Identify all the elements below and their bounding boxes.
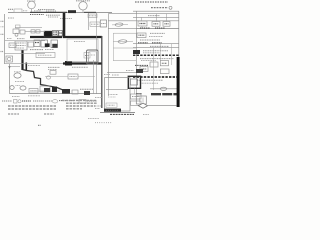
label rows y50 [143,50,168,52]
dark label row 2 [110,113,134,115]
dense ladder vertical x160 mid [159,44,161,61]
relay K3 box [59,31,62,37]
component box M [15,41,27,50]
bottom dark chip b2 [52,87,57,93]
big unit rectangle [67,39,98,62]
ladder left boundary wire [107,14,109,96]
ladder rail y13.6 [108,13,179,15]
arrowhead on left wire [8,66,10,69]
label 28V DC [8,8,14,10]
feeder staircase wire [23,70,64,94]
label below bus [46,14,60,16]
box a3 text [165,23,169,25]
box mid text [70,76,77,78]
label above y47.6 [150,45,169,47]
dark label on y43.6 a [138,42,148,44]
small box on wire [16,25,21,28]
wire under tall unit [100,111,135,113]
relay K5 filled [52,44,57,48]
box y66 c text [142,68,147,70]
component box up-c [100,20,106,27]
dark section bottom band [151,93,177,95]
ladder rail y47.6 [133,47,179,49]
tall unit text row 1 [108,94,118,96]
page number [38,124,41,126]
ladder rail y20.8 [108,20,179,22]
paragraph A line 1 [8,105,56,107]
twisted loop on y88.8 [160,87,166,90]
relay K2 box [53,31,59,37]
label rows y58.5 [140,58,174,60]
small box in big unit [84,53,90,59]
note paragraph B line 3 [66,105,95,107]
bottom label e [80,88,94,90]
dotted separator row [95,122,112,124]
wire horizontal y27.7 [15,27,42,29]
twisted wire loop 2 [118,39,127,43]
relay box row2 a [34,40,40,47]
breaker box row a2 [152,22,160,27]
breaker box row a1 [138,21,147,26]
connector balloon P1 [28,1,36,9]
relay row2 a text [35,42,39,44]
wire vertical x113.4 [112,33,114,61]
paragraph A line 2 [8,108,56,110]
label text mid-left 2 [48,68,57,70]
relay K3 text [60,32,62,34]
wire y91 bottom row [30,90,60,92]
wire vertical x153.3 [152,48,154,90]
label right of box y33 [150,32,165,34]
instrument oval Y2 [20,86,26,90]
dark label on rail y28.7 a [140,27,150,29]
heavy right border bar [177,57,180,107]
wire vertical x171.3 [170,44,172,65]
label below y72.6 [112,74,119,76]
upper wire vertical x88.5 [88,13,90,30]
label text above bus 2 [46,10,56,12]
fig label bottom right [143,114,149,116]
component box y69 d [160,69,169,74]
label box top-left [14,9,22,12]
breaker box row a3 [163,22,170,27]
label above P1 [27,0,36,2]
label above oval X [14,71,21,73]
dark label on rail y28.7 b [155,27,165,29]
small ellipse symbol mid-left [46,76,50,79]
note row text e [59,100,74,102]
rounded unit inner [88,52,96,62]
note row oval [52,100,58,103]
relay box row2 b [41,40,48,47]
box a2 text [154,23,159,25]
tick row under bus [30,14,44,16]
dark label on y43.6 b [152,42,162,44]
label right of stem P1 [34,10,41,12]
box y61 b text [162,62,167,64]
wire heavy box to side box [134,88,136,94]
white gaps in dark label band [106,109,119,111]
component box O [28,42,34,47]
label box up-b text [91,23,99,25]
dark terminal box left [133,50,140,54]
switch box b [20,30,25,34]
dense ladder vertical x142 lower [141,26,143,29]
title balloon [169,6,172,9]
box M text row3 [17,47,25,49]
label under rail y13.6 [148,15,160,17]
parallel thin wire [96,12,98,93]
feeder thick wire vertical [21,50,23,70]
valve symbol box [136,96,146,104]
component box N [9,43,16,48]
instrument oval X [14,73,21,78]
label left of stem P1 [23,10,28,12]
junction box on trunk 2 [65,61,72,66]
wire through loop 1 [112,23,128,26]
bottom box a text [31,90,37,92]
twisted wire loop 1 [115,23,123,27]
box M text row2 [17,45,26,47]
wire rail y88.8 [150,88,179,90]
label rows y80 [137,79,163,81]
relay K2 text b [53,33,57,35]
label below bus 3 [60,17,72,19]
bottom box b [40,86,50,92]
revised note text [88,118,99,120]
wire y76.6 left part [45,76,68,78]
label below y63.6 wire [28,64,40,66]
indicator circle in W [7,57,11,61]
text under bottom line b [28,95,40,97]
bracket label A [1,20,5,22]
left border wire upper [4,14,6,64]
circuit breaker CB1 [68,10,76,13]
rounded unit box [87,50,99,64]
wire rail y72.6 [107,72,136,74]
wire horizontal y40.7 [5,40,45,42]
big unit title text [74,40,85,42]
trunk drop wire [101,36,103,108]
component box y66 c [140,67,148,72]
left border wire lower [9,64,11,94]
dark label band bottom of tall unit [104,109,121,112]
label between ovals rows [15,81,24,83]
bus wire dark segment [30,11,67,13]
note row text b [22,100,31,102]
dense ladder vertical x166.3 [165,14,167,22]
wire from diamond to right border [148,105,177,107]
side box g1 text [132,96,140,98]
feeder thick wire parallel [25,63,27,71]
ladder rail y43.6 [133,43,179,45]
wire rail y60.6 [113,60,136,62]
paragraph A line 3 short [8,113,19,115]
dark label y65 left [135,64,148,66]
relay K1 filled box [44,31,52,37]
note paragraph B line 4 [66,108,82,110]
bottom dark chip b1 [44,88,50,92]
label text above bus [38,9,55,11]
wire vertical x93.7 [93,60,95,94]
note row circlet [18,100,21,103]
tall unit text row 2 [108,96,116,98]
switch box a [13,29,19,34]
ladder rail y11.2 [133,10,179,12]
label above wide box b [45,49,54,51]
dense ladder text y36.6 [149,36,163,38]
box y33 text [139,34,145,36]
component box mid [68,74,78,79]
wire horizontal y63.6 [5,63,64,65]
bottom boundary wire [10,93,102,95]
left col marks b [95,105,101,107]
paragraph A fig ref [44,113,54,115]
note row text d [45,100,52,102]
left col marks c [95,107,100,109]
contact circle [15,33,18,36]
label box up-a [88,14,97,18]
small box mid-left [50,71,56,75]
bottom dark box f [84,91,90,95]
ladder rail y17.4 [133,16,179,18]
bracket label B [1,33,5,35]
bottom box d [72,90,78,94]
relay K4 filled [45,43,50,47]
component box y62 a [150,62,158,67]
label box up-b [90,22,100,26]
relay K2 text [53,31,57,33]
wide relay box mid [36,53,55,58]
rounded unit text [90,54,96,56]
component box W [6,56,13,62]
instrument oval Y1 [10,86,14,90]
bus wire dark segment 2 [84,11,96,13]
wide relay box text [38,54,52,56]
relay box row2 c [51,40,58,48]
dense ladder text y60.4 [141,59,156,61]
tick in valve box 2 [142,98,144,103]
left edge tiny label [1,26,5,28]
bracket label C [1,51,4,53]
title text row 2 [151,7,168,9]
small box d [36,30,40,33]
wire stem P1 to bus [31,9,33,13]
ladder rail y28.7 [136,28,179,30]
wire rail y89.6 [106,89,128,91]
note row symbols: text a [2,100,12,102]
note row box f [79,100,86,104]
dense ladder vertical x156.3 [155,14,157,22]
note row text g [87,100,97,102]
component box y33 [137,33,146,38]
dense ladder vertical x141.5 [141,17,143,21]
check valve diamond [138,103,147,108]
heavy dashed feeder y55.2 [133,54,179,56]
wire stem P2 to bus [82,10,84,12]
label above wide box a [30,49,43,51]
component box y61 b [160,61,168,66]
wire rail y48 [113,47,136,49]
heavy dashed feeder y77 [133,76,179,78]
relay heavy-border box [128,76,140,88]
bottom box a [29,89,38,94]
relay cluster dark band [30,36,62,38]
note paragraph B line 2 [66,102,97,104]
small box text [108,104,116,106]
small box c [31,30,35,33]
bottom dark box c [62,89,70,94]
wire horizontal y53.7 [5,53,46,55]
label under left border top [8,17,14,19]
label between ovals [16,85,21,87]
label above P2 [76,0,90,2]
text in small box of big unit [85,54,89,56]
side box g2 [131,101,142,105]
note paragraph B line 1 [62,99,97,101]
wire y76.6 right part [78,76,95,78]
label text below trunk2 [72,66,88,68]
trunk harness vertical [63,13,66,37]
label above y40.7 b [17,38,25,40]
small box in tall unit [106,103,117,107]
note row text c [33,100,44,102]
dense ladder right boundary [178,11,180,57]
wire rail y33.2 [113,32,136,34]
label row y40 [140,39,160,41]
bus wire 28V DC [8,11,112,13]
left col marks a [95,96,102,98]
text under bottom line a [12,96,20,98]
tall unit box [105,78,130,112]
label above y40.7 [7,38,12,40]
dense ladder text y52.8 [143,52,160,54]
title text row 1 [135,1,168,3]
label above y72.6 [126,70,134,72]
label below bus 2 [48,16,58,18]
ladder rail y28.6 [108,28,179,30]
box up-c text [101,23,105,25]
box M text row1 [17,42,26,44]
relay heavy box inner [131,79,138,85]
note row small box [14,100,18,104]
box a1 text [140,23,146,25]
dense ladder left boundary [135,11,137,96]
text right of trunk drop [104,74,110,76]
dark cluster chip [136,69,143,73]
trunk harness horizontal 2 [63,62,102,64]
label text mid-left 1 [48,66,60,68]
wire through loop 2 [113,40,133,43]
label rows y83 [140,82,158,84]
box N text [10,44,15,46]
wire horizontal y66.6 [10,66,21,68]
side box g1 [131,94,142,99]
connector balloon P2 [79,2,87,10]
wire horizontal y31.7 [25,31,45,33]
trunk harness horizontal [63,36,102,38]
label box up-a text [89,15,96,17]
tick in valve box 1 [139,98,141,103]
small dark mark above valve box [137,93,142,95]
tick below small box [88,58,90,62]
